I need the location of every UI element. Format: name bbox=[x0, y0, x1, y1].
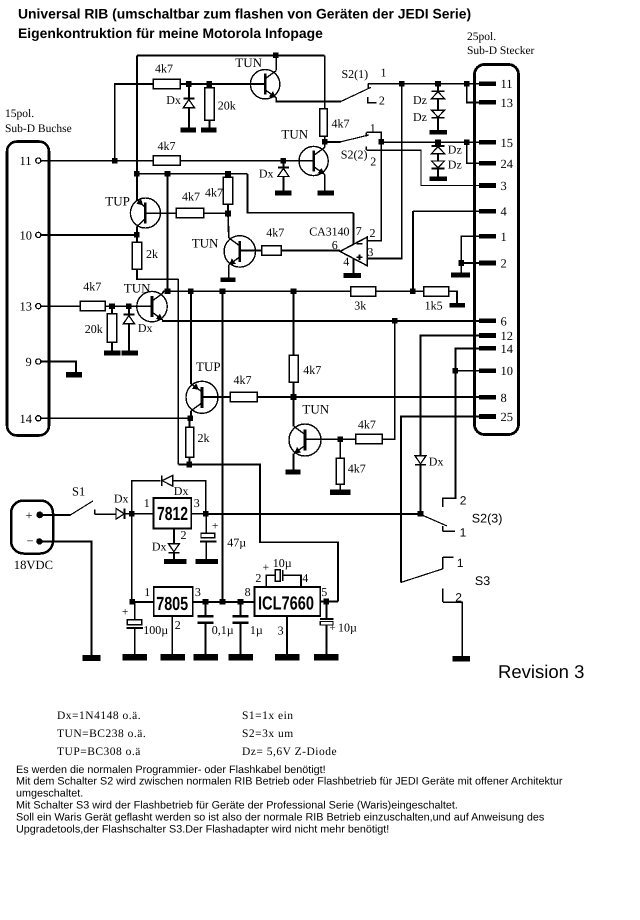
label U4 pin2 bbox=[255, 571, 261, 585]
svg-text:11: 11 bbox=[20, 154, 32, 168]
wire U4 pin5 out bbox=[320, 601, 338, 603]
svg-text:2: 2 bbox=[455, 591, 462, 605]
label U1 pin2 bbox=[370, 226, 376, 240]
svg-text:Upgradetools,der Flashschalter: Upgradetools,der Flashschalter S3.Der Fl… bbox=[16, 823, 389, 835]
wire bypass up bbox=[132, 481, 161, 514]
svg-text:Dx: Dx bbox=[114, 492, 129, 506]
ground of minus bbox=[83, 655, 101, 661]
table Dx bbox=[57, 710, 141, 722]
resistor R13 4k7 bbox=[230, 373, 257, 402]
resistor R3 4k7 vertical bbox=[320, 109, 350, 137]
ground of Q4 emitter bbox=[221, 277, 236, 282]
svg-text:CA3140: CA3140 bbox=[309, 225, 349, 239]
connector J1 15pol Sub-D Buchse body bbox=[7, 142, 49, 436]
note line 1 bbox=[16, 764, 326, 776]
svg-text:24: 24 bbox=[501, 157, 514, 171]
connector X1 18VDC body bbox=[11, 501, 53, 573]
svg-text:10: 10 bbox=[501, 364, 514, 378]
capacitor C4 1u bbox=[233, 602, 263, 654]
pin 15 of J2 bbox=[479, 136, 513, 150]
resistor R15 4k7 bbox=[340, 418, 382, 444]
svg-text:Mit dem Schalter S2 wird zwisc: Mit dem Schalter S2 wird zwischen normal… bbox=[16, 776, 563, 788]
wire x167 vertical bbox=[167, 174, 169, 292]
svg-text:S3: S3 bbox=[475, 574, 490, 588]
diode D7 Dx bbox=[152, 540, 180, 559]
wire R9 to TUN4 bbox=[105, 305, 152, 307]
svg-text:TUP: TUP bbox=[196, 359, 221, 374]
resistor R9 4k7 bbox=[80, 280, 105, 311]
note line 4 bbox=[16, 800, 458, 812]
svg-text:Dx=1N4148 o.ä.: Dx=1N4148 o.ä. bbox=[57, 710, 141, 722]
transistor Q2 TUN bbox=[281, 126, 328, 175]
svg-text:4k7: 4k7 bbox=[234, 373, 252, 387]
ground of Dz pair 1 bbox=[429, 130, 447, 135]
svg-text:2: 2 bbox=[379, 94, 385, 108]
wire Q1 collector to rail bbox=[275, 55, 277, 70]
svg-text:1: 1 bbox=[460, 526, 467, 540]
svg-text:2k: 2k bbox=[146, 247, 158, 261]
table Dz bbox=[242, 746, 337, 758]
svg-text:Sub-D Stecker: Sub-D Stecker bbox=[467, 45, 535, 57]
svg-text:6: 6 bbox=[501, 315, 507, 329]
svg-text:6: 6 bbox=[332, 238, 338, 252]
ground of U3 bbox=[161, 654, 186, 661]
wire R13 to pin8 run bbox=[257, 396, 293, 398]
switch S2(1) blade bbox=[341, 87, 371, 101]
ground of U1 bbox=[344, 273, 362, 278]
resistor R12 1k5 bbox=[424, 287, 449, 313]
wire U1 pin7 supply bbox=[353, 213, 355, 245]
wire Q3 base to R5 bbox=[145, 212, 176, 214]
wire D5 to 7812 bbox=[125, 513, 154, 515]
pin 9 of J1 bbox=[26, 355, 41, 369]
wire Q7 base bbox=[305, 438, 340, 440]
wire plus to S1 bbox=[40, 514, 71, 516]
wire S1 to D5 bbox=[95, 513, 116, 515]
wire 7812 to 7805 bbox=[131, 514, 133, 602]
wire Q1 emitter to S2(1) bbox=[276, 98, 341, 102]
svg-text:Soll ein Waris Gerät geflasht: Soll ein Waris Gerät geflasht werden so … bbox=[16, 811, 545, 823]
wire jog to pin 24 bbox=[467, 142, 479, 163]
ground of S3 bbox=[453, 656, 471, 662]
svg-text:Dx: Dx bbox=[429, 454, 444, 468]
wire pin4 row bbox=[413, 210, 479, 212]
wire U3 pin2 down bbox=[171, 616, 173, 654]
svg-text:Universal RIB (umschaltbar zum: Universal RIB (umschaltbar zum flashen v… bbox=[18, 6, 471, 22]
svg-text:4: 4 bbox=[501, 205, 508, 219]
switch S2(1) contact 2 bbox=[368, 97, 377, 103]
svg-text:2: 2 bbox=[370, 226, 376, 240]
svg-text:2: 2 bbox=[175, 618, 181, 632]
wire Q5 collector up bbox=[162, 291, 164, 293]
node 20k2 tap bbox=[109, 303, 115, 309]
svg-text:10µ: 10µ bbox=[338, 621, 357, 635]
node 12V rail left bbox=[203, 511, 209, 517]
wire +5 rail bbox=[163, 290, 351, 292]
svg-text:TUN=BC238 o.ä.: TUN=BC238 o.ä. bbox=[57, 728, 146, 740]
ground of pins 1 2 bbox=[451, 273, 470, 278]
resistor R17 4k7 vertical bbox=[289, 291, 321, 397]
svg-text:Dx: Dx bbox=[138, 321, 153, 335]
wire Q5 emitter to pin6 run bbox=[163, 319, 479, 322]
transistor Q5 TUN bbox=[124, 280, 167, 322]
svg-text:4k7: 4k7 bbox=[155, 62, 173, 76]
switch S2(3) blade bbox=[422, 515, 447, 526]
node CA3140 +in rail tap bbox=[399, 81, 405, 87]
svg-text:18VDC: 18VDC bbox=[14, 558, 53, 572]
wire S2(2) pole stub bbox=[325, 141, 341, 143]
svg-text:10: 10 bbox=[20, 228, 33, 242]
svg-text:Dz= 5,6V Z-Diode: Dz= 5,6V Z-Diode bbox=[242, 746, 337, 758]
label S2(3) bbox=[472, 512, 503, 526]
label U3 pin2 bbox=[175, 618, 181, 632]
node C4 tap bbox=[238, 599, 244, 605]
svg-text:7805: 7805 bbox=[156, 594, 188, 615]
wire pins drop to S2(3) bbox=[443, 371, 456, 508]
node +5 feed bbox=[220, 599, 226, 605]
terminal minus bbox=[27, 534, 43, 548]
ground of Dz pair 2 bbox=[429, 176, 447, 181]
node Dx D2 tap bbox=[281, 158, 287, 164]
svg-text:13: 13 bbox=[501, 96, 514, 110]
wire R1 to TUN1 base bbox=[180, 83, 265, 85]
wire +5 vertical bbox=[222, 291, 224, 602]
svg-text:S2(2): S2(2) bbox=[341, 148, 368, 162]
node rail2 left bbox=[379, 139, 385, 145]
svg-text:S1=1x ein: S1=1x ein bbox=[242, 710, 294, 722]
svg-text:Dx: Dx bbox=[259, 167, 274, 181]
node S2(2) pole bbox=[322, 139, 328, 145]
svg-text:4k7: 4k7 bbox=[348, 462, 366, 476]
label S2(3) pos 1 bbox=[460, 526, 467, 540]
node rail x191 bbox=[188, 289, 194, 295]
label S2(2) pos 1 bbox=[370, 121, 376, 135]
label S2(1) pos 1 bbox=[381, 66, 387, 80]
svg-text:1: 1 bbox=[501, 230, 507, 244]
wire R7 to minus rail bbox=[137, 269, 178, 279]
svg-text:+: + bbox=[212, 521, 219, 533]
switch S2(3) contact 1 bbox=[443, 526, 455, 532]
pin 11 of J2 bbox=[479, 77, 513, 91]
ground of R16 bbox=[330, 489, 351, 495]
pin 10 of J2 bbox=[479, 364, 513, 378]
wire U2 pin2 down bbox=[173, 529, 175, 544]
wire pin2 row bbox=[461, 262, 479, 264]
label U2 pin1 bbox=[144, 496, 150, 510]
node Q7 base bbox=[338, 437, 344, 443]
svg-text:1k5: 1k5 bbox=[425, 299, 443, 313]
diode D2 Dx bbox=[259, 161, 289, 191]
table TUN bbox=[57, 728, 146, 740]
switch S2(2) contact 1 bbox=[366, 132, 381, 142]
node rail x167 bbox=[165, 289, 171, 295]
wire minus drop x178 bbox=[177, 279, 179, 464]
svg-text:+: + bbox=[122, 606, 128, 618]
capacitor C5 10u pump bbox=[263, 556, 301, 587]
label S2(3) pos 2 bbox=[460, 494, 467, 508]
node tap x167 bbox=[165, 171, 171, 177]
wire pins12 ground bbox=[460, 263, 462, 273]
node pin2 junction bbox=[458, 260, 464, 266]
diode D6 Dx bypass bbox=[162, 475, 189, 498]
wire pin14 row left bbox=[41, 417, 191, 419]
label U4 pin5 bbox=[321, 585, 327, 599]
svg-text:3: 3 bbox=[367, 245, 373, 259]
switch S3 contact 2 bbox=[443, 588, 463, 656]
svg-text:4k7: 4k7 bbox=[158, 139, 176, 153]
label S3 pos 1 bbox=[457, 556, 464, 570]
svg-text:Eigenkontruktion für meine Mot: Eigenkontruktion für meine Motorola Info… bbox=[18, 25, 323, 41]
svg-text:Mit Schalter S3 wird der Flash: Mit Schalter S3 wird der Flashbetrieb fü… bbox=[16, 800, 458, 812]
wire U3 output bbox=[193, 601, 255, 603]
label S3 bbox=[475, 574, 490, 588]
svg-text:2: 2 bbox=[255, 571, 261, 585]
wire 12V rail bbox=[206, 513, 421, 515]
wire Q6 emitter up bbox=[190, 291, 192, 384]
node pin24 branch bbox=[464, 139, 470, 145]
node tap x228 bbox=[225, 171, 231, 177]
title line 2 bbox=[18, 25, 323, 41]
svg-text:7812: 7812 bbox=[157, 504, 188, 525]
node 7812 input bbox=[129, 511, 135, 517]
node Q4 collector top bbox=[225, 211, 231, 217]
wire rail corner down bbox=[324, 55, 326, 108]
node on bus at y173 bbox=[134, 171, 140, 177]
op-amp U1 CA3140 bbox=[309, 225, 367, 266]
svg-text:+: + bbox=[263, 562, 270, 574]
note line 5 bbox=[16, 811, 545, 823]
wire Q7 emitter down bbox=[293, 454, 295, 470]
wire U4 pin3 down bbox=[286, 616, 288, 654]
svg-text:TUN: TUN bbox=[124, 280, 151, 295]
wire minus run to ICL bbox=[189, 465, 338, 602]
wire U1 pin2 inverting bbox=[367, 142, 381, 241]
wire minus down bbox=[39, 541, 91, 655]
svg-text:12: 12 bbox=[501, 329, 514, 343]
wire pin25 row bbox=[401, 417, 479, 583]
node pin10 junction bbox=[134, 232, 140, 238]
svg-text:+: + bbox=[330, 622, 336, 634]
resistor R4 4k7 bbox=[153, 139, 180, 165]
svg-text:4k7: 4k7 bbox=[266, 225, 284, 239]
capacitor C1 47u bbox=[200, 514, 246, 559]
svg-text:20k: 20k bbox=[85, 322, 103, 336]
wire U2 output bbox=[191, 513, 206, 515]
wire pin14 to pin10 bbox=[455, 348, 478, 370]
svg-text:3: 3 bbox=[501, 179, 507, 193]
resistor R1 4k7 bbox=[153, 62, 180, 89]
transistor Q7 TUN bbox=[289, 401, 330, 456]
resistor R16 4k7 vertical bbox=[336, 439, 365, 489]
svg-text:S2(3): S2(3) bbox=[472, 512, 503, 526]
title line 1 bbox=[18, 6, 471, 22]
svg-text:umgeschaltet.: umgeschaltet. bbox=[16, 788, 83, 800]
wire pin1 to pin2 bbox=[461, 236, 479, 263]
label U4 pin3 bbox=[278, 624, 284, 638]
regulator U2 7812 bbox=[154, 498, 192, 529]
wire U1 pin3 noninverting bbox=[367, 84, 402, 259]
pin 6 of J2 bbox=[479, 315, 507, 329]
ground of D3 bbox=[122, 350, 138, 355]
wire pin10 row bbox=[41, 234, 137, 236]
svg-text:2: 2 bbox=[181, 528, 187, 542]
svg-text:4k7: 4k7 bbox=[205, 186, 223, 200]
label Revision 3 bbox=[498, 661, 584, 682]
svg-text:Dz: Dz bbox=[413, 93, 427, 107]
svg-text:1: 1 bbox=[381, 66, 387, 80]
wire top rail bbox=[137, 54, 325, 56]
svg-text:Es werden die normalen Program: Es werden die normalen Programmier- oder… bbox=[16, 764, 326, 776]
wire pin8 row bbox=[294, 396, 479, 398]
zener Dz2 bbox=[413, 99, 445, 130]
pin 11 of J1 bbox=[20, 154, 41, 168]
svg-text:2: 2 bbox=[501, 257, 507, 271]
wire R8 to CA3140 out bbox=[281, 249, 340, 251]
wire pin10 row bbox=[455, 370, 478, 372]
svg-text:TUP: TUP bbox=[105, 193, 130, 208]
pin 2 of J2 bbox=[479, 257, 507, 271]
ground of C6 bbox=[314, 654, 339, 661]
svg-text:3: 3 bbox=[278, 624, 284, 638]
wire Q3 emitter up bbox=[136, 199, 138, 200]
switch S3 contact 1 bbox=[443, 557, 454, 569]
node pin10 junction R bbox=[453, 368, 459, 374]
resistor R5 4k7 bbox=[176, 190, 204, 218]
wire pin12 drop bbox=[421, 336, 479, 456]
wire rail pin15 bbox=[381, 141, 479, 143]
ground of R12 bbox=[449, 303, 465, 307]
diode D3 Dx bbox=[123, 306, 152, 350]
label U3 pin3 bbox=[195, 585, 201, 599]
ground of R2 bbox=[201, 127, 217, 132]
pin 8 of J2 bbox=[479, 391, 507, 405]
svg-text:Sub-D Buchse: Sub-D Buchse bbox=[5, 123, 72, 135]
svg-text:Dz: Dz bbox=[413, 110, 427, 124]
table TUP bbox=[57, 746, 141, 758]
diode D5 Dx bbox=[114, 492, 129, 520]
regulator U3 7805 bbox=[154, 587, 193, 616]
wire R5 to node bbox=[204, 212, 229, 214]
label 15pol header bbox=[5, 108, 72, 135]
ground of D1 bbox=[181, 127, 197, 132]
node Dx D1 tap bbox=[186, 81, 192, 87]
node S2(3) pole bbox=[418, 511, 424, 517]
svg-text:4k7: 4k7 bbox=[83, 280, 101, 294]
wire to 7805 bbox=[132, 601, 154, 603]
svg-text:TUN: TUN bbox=[302, 401, 329, 416]
svg-text:S1: S1 bbox=[72, 485, 85, 499]
diode D4 Dx bbox=[415, 454, 443, 514]
wire R11 to R12 bbox=[376, 290, 424, 292]
svg-text:−: − bbox=[27, 534, 34, 548]
connector J2 25pol Sub-D Stecker body bbox=[475, 65, 519, 435]
resistor R11 3k bbox=[351, 287, 376, 313]
ground of U4 bbox=[275, 654, 300, 661]
svg-text:2k: 2k bbox=[198, 431, 210, 445]
svg-text:4: 4 bbox=[302, 571, 308, 585]
ground of pin9 bbox=[66, 372, 82, 378]
svg-text:4: 4 bbox=[343, 255, 349, 269]
svg-text:9: 9 bbox=[26, 355, 32, 369]
svg-text:TUN: TUN bbox=[192, 236, 219, 251]
svg-text:S2=3x um: S2=3x um bbox=[242, 728, 294, 740]
node 7805 input bbox=[130, 599, 136, 605]
label U4 pin4 bbox=[302, 571, 308, 585]
label U1 pin3 bbox=[367, 245, 373, 259]
svg-text:2: 2 bbox=[460, 494, 467, 508]
ground of R10 bbox=[104, 350, 121, 355]
transistor Q3 TUP bbox=[105, 193, 160, 228]
node Dz pair 2 tap bbox=[435, 139, 441, 145]
wire vertical bus left bbox=[136, 55, 138, 200]
svg-text:14: 14 bbox=[20, 412, 33, 426]
svg-text:TUP=BC308 o.ä: TUP=BC308 o.ä bbox=[57, 746, 141, 758]
svg-text:47µ: 47µ bbox=[227, 535, 246, 549]
svg-text:Dx: Dx bbox=[174, 484, 189, 498]
wire Q3 collector down bbox=[136, 227, 138, 235]
node Q1 collector rail bbox=[273, 53, 279, 59]
svg-text:100µ: 100µ bbox=[143, 623, 168, 637]
wire x178 corner bbox=[178, 464, 189, 466]
wire jog to pin 13 bbox=[467, 84, 479, 103]
svg-text:1: 1 bbox=[144, 585, 150, 599]
svg-text:+: + bbox=[26, 509, 33, 523]
node pin11 branch bbox=[112, 158, 118, 164]
wire Q4 base to R8 bbox=[240, 249, 262, 251]
pin 10 of J1 bbox=[20, 228, 41, 242]
label S2(1) bbox=[342, 67, 369, 81]
label S3 pos 2 bbox=[455, 591, 462, 605]
wire bypass down bbox=[173, 481, 206, 514]
ground of Q7 emitter bbox=[286, 470, 301, 475]
converter U4 ICL7660 bbox=[255, 587, 321, 616]
label U3 pin1 bbox=[144, 585, 150, 599]
svg-text:4k7: 4k7 bbox=[182, 190, 200, 204]
transistor Q4 TUN bbox=[192, 236, 256, 268]
svg-text:20k: 20k bbox=[218, 99, 236, 113]
ground of C4 bbox=[228, 654, 253, 661]
capacitor C3 0.1u bbox=[198, 602, 234, 654]
svg-text:Dz: Dz bbox=[448, 157, 462, 171]
wire pin11 row left bbox=[41, 160, 153, 162]
wire 4k7 feed corner bbox=[115, 84, 154, 161]
svg-text:3: 3 bbox=[195, 585, 201, 599]
wire Q2 emitter bbox=[324, 175, 326, 191]
svg-text:3k: 3k bbox=[354, 299, 366, 313]
svg-text:1: 1 bbox=[370, 121, 376, 135]
capacitor C2 100u bbox=[122, 602, 168, 654]
pin 14 of J2 bbox=[479, 342, 514, 356]
wire R15 to pin6 run bbox=[382, 321, 394, 439]
svg-text:Dx: Dx bbox=[152, 540, 167, 554]
transistor Q1 TUN bbox=[235, 55, 280, 99]
resistor R6 4k7 vertical bbox=[205, 174, 233, 214]
node pin8 collector junction bbox=[291, 394, 297, 400]
svg-text:4k7: 4k7 bbox=[358, 418, 376, 432]
label S2(2) pos 2 bbox=[370, 154, 376, 168]
note line 3 bbox=[16, 788, 83, 800]
resistor R14 2k bbox=[186, 418, 210, 464]
svg-text:Dx: Dx bbox=[166, 93, 181, 107]
node divider bbox=[410, 289, 416, 295]
wire Q6 base to R13 bbox=[202, 396, 230, 398]
wire Q4 emitter down bbox=[228, 265, 230, 278]
pin 3 of J2 bbox=[479, 179, 507, 193]
svg-text:0,1µ: 0,1µ bbox=[212, 623, 234, 637]
node C6 tap bbox=[324, 599, 330, 605]
zener Dz4 bbox=[432, 154, 462, 177]
pin 14 of J1 bbox=[20, 412, 41, 426]
